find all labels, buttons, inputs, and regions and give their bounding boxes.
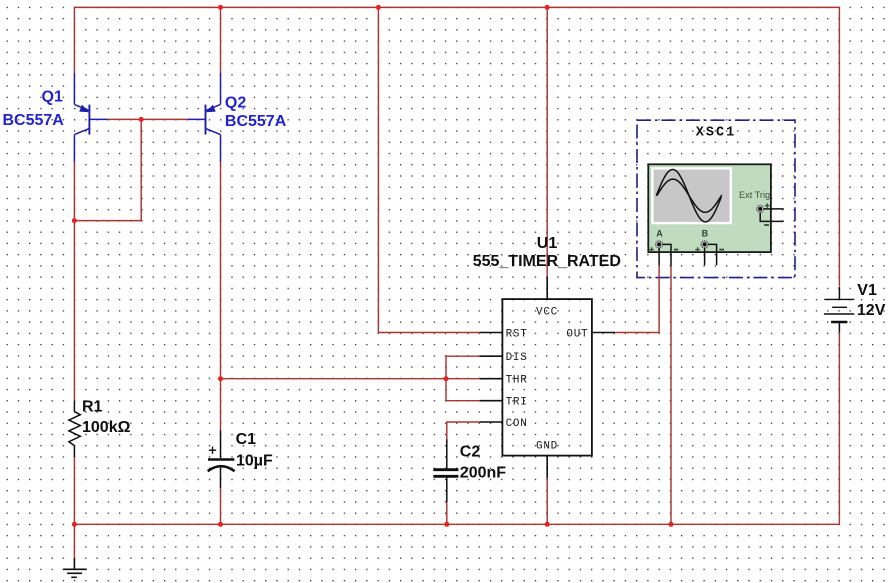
wire R1 to bottom rail and ground [73, 457, 75, 558]
junction top rail / RST [376, 5, 381, 10]
svg-text:Ext Trig: Ext Trig [739, 190, 770, 200]
pin DIS stub [480, 355, 503, 357]
op-amp U1 555 timer box [473, 235, 621, 478]
wire top power rail [74, 6, 839, 8]
scope screen [652, 168, 730, 223]
oscilloscope XSC1 [637, 120, 795, 277]
wire ext trig plus stub [764, 208, 784, 210]
wire bottom ground rail [74, 523, 839, 525]
wire channel A minus stub [663, 244, 671, 266]
junction top rail / VCC [545, 5, 550, 10]
channel B terminal [695, 229, 724, 266]
pin THR stub [480, 378, 503, 380]
wire DIS-TRI vertical tie [445, 356, 447, 401]
pin VCC stub [546, 277, 548, 299]
scope trace wave 1 [656, 170, 721, 222]
svg-text:U1: U1 [537, 235, 558, 252]
svg-text:RST: RST [506, 328, 528, 340]
svg-text:VCC: VCC [536, 306, 558, 318]
svg-text:OUT: OUT [566, 328, 588, 340]
svg-text:TRI: TRI [506, 397, 528, 409]
wire Q2 collector to C1 top [220, 162, 222, 430]
svg-text:10µF: 10µF [236, 453, 273, 470]
capacitor C2 200nF [433, 439, 506, 502]
wire left rail upper (to Q1 emitter) [73, 7, 75, 73]
resistor R1 100k [69, 398, 131, 457]
transistor Q2 BC557A PNP [188, 73, 287, 162]
svg-text:R1: R1 [82, 398, 103, 415]
svg-text:200nF: 200nF [460, 464, 506, 481]
svg-text:555_TIMER_RATED: 555_TIMER_RATED [473, 253, 621, 270]
capacitor C1 10uF polarized [208, 430, 273, 488]
svg-text:A: A [656, 229, 663, 239]
junction Q1 collector / loop [72, 218, 77, 223]
svg-text:DIS: DIS [506, 352, 528, 364]
wire ext trig minus stub [760, 213, 784, 222]
svg-text:BC557A: BC557A [3, 112, 65, 129]
wire RST drop from rail [378, 7, 480, 332]
scope body [648, 164, 771, 252]
junction bottom rail / C1 [218, 522, 223, 527]
svg-text:CON: CON [506, 418, 528, 430]
svg-text:C2: C2 [460, 443, 481, 460]
svg-text:Q2: Q2 [225, 95, 246, 112]
junction bottom rail / scope A minus [669, 522, 674, 527]
XSC1 dashed boundary [637, 120, 795, 277]
pin OUT stub [592, 332, 615, 334]
wire OUT to scope channel A plus [615, 265, 659, 332]
wire V1 top drop from rail [838, 7, 840, 287]
transistor Q1 BC557A PNP [3, 73, 108, 162]
svg-text:XSC1: XSC1 [696, 126, 736, 141]
wire V1 bottom to rail [838, 332, 840, 525]
junction bottom rail / C2 [444, 522, 449, 527]
svg-text:100kΩ: 100kΩ [82, 419, 131, 436]
wire C1 bottom to rail [220, 488, 222, 524]
svg-text:THR: THR [506, 375, 528, 387]
battery V1 12V [824, 282, 886, 332]
wire Q2 emitter drop from rail [220, 7, 222, 73]
ground [63, 558, 86, 577]
wire channel B minus stub [708, 244, 717, 265]
svg-text:B: B [702, 229, 709, 239]
pin GND stub [546, 456, 548, 478]
wire C2 bottom to rail [446, 502, 448, 524]
svg-text:12V: 12V [857, 302, 886, 319]
junction THR / DIS-TRI tie [444, 376, 449, 381]
wire TRI stub [446, 400, 480, 402]
svg-text:BC557A: BC557A [225, 113, 287, 130]
junction base net [139, 117, 144, 122]
wire base-to-collector feedback loop [74, 119, 141, 220]
svg-text:C1: C1 [236, 431, 257, 448]
junction bottom rail / 555 GND [545, 522, 550, 527]
junction top rail / Q2 [218, 5, 223, 10]
wire THR net horizontal [221, 378, 481, 380]
wire 555 GND to rail [546, 478, 548, 524]
Ext Trig terminal [757, 203, 784, 225]
pin RST stub [480, 332, 503, 334]
wire VCC drop from rail [546, 7, 548, 277]
wire channel A plus stub [658, 248, 660, 266]
wire Q1 base to Q2 base [108, 118, 188, 120]
junction bottom rail / ground [72, 522, 77, 527]
scope trace wave 2 [657, 179, 722, 212]
junction THR / C1 net [218, 376, 223, 381]
wire DIS stub [446, 355, 480, 357]
wire CON stub [447, 422, 481, 439]
svg-text:Q1: Q1 [42, 89, 63, 106]
pin TRI stub [480, 400, 503, 402]
pin CON stub [480, 421, 503, 423]
wire Q1 collector to R1 [73, 162, 75, 401]
wire channel B plus stub [704, 248, 706, 265]
svg-text:GND: GND [536, 440, 558, 452]
channel A terminal [649, 229, 678, 266]
svg-text:V1: V1 [857, 282, 877, 299]
wire scope channel A minus to rail [670, 266, 672, 525]
